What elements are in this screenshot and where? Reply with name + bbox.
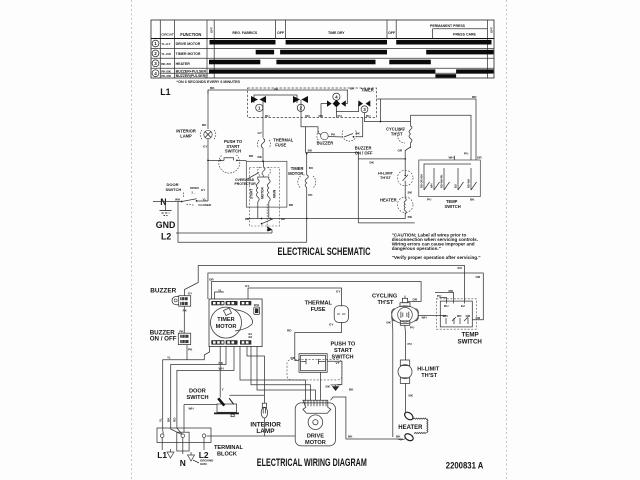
svg-text:BUZZER: BUZZER [150,288,176,295]
svg-text:FUNCTION: FUNCTION [180,32,201,37]
cycling thermostat (wiring) [392,298,419,325]
wire heater down [404,213,406,219]
svg-text:HI-LIMIT: HI-LIMIT [417,367,440,373]
temp switch internal contact 4 [454,168,464,190]
terminal block N sub-box [177,432,189,451]
wire L1 down [161,438,163,451]
wire cycling top to bus [404,296,406,299]
wire cycling bottom PU [404,325,407,360]
wire door switch left down to N [183,405,185,433]
svg-text:TEMP: TEMP [462,332,479,339]
svg-text:RD: RD [173,417,177,422]
svg-text:MAIN: MAIN [272,189,276,198]
svg-text:MOTOR: MOTOR [260,186,264,199]
svg-text:BK: BK [349,388,354,392]
wire lamp bus right to drive motor [264,435,295,437]
wire bus D (OR) to cycling thermostat [212,282,422,302]
row1 drive motor bar seg1 [210,40,276,45]
svg-text:LAMP: LAMP [180,134,192,139]
ground symbol 2 [188,452,195,461]
svg-text:1: 1 [258,106,261,111]
svg-text:BK: BK [387,321,392,325]
wire buzzer down to on/off [183,306,185,333]
motor solid box [246,161,287,207]
svg-text:SWITCH: SWITCH [445,204,461,209]
wire BK harness to N terminal [171,346,226,434]
drive motor connector [303,400,331,413]
svg-text:CYCLING: CYCLING [372,294,397,300]
overload protector [258,167,271,176]
svg-text:ON / OFF: ON / OFF [150,335,177,342]
svg-text:HEATER: HEATER [176,62,191,66]
svg-text:TIMER: TIMER [217,317,234,323]
svg-text:YL-GY: YL-GY [161,42,171,46]
svg-text:BK: BK [167,417,171,422]
svg-text:2200831 A: 2200831 A [446,461,484,471]
svg-text:PK: PK [331,133,336,137]
svg-text:OR: OR [209,278,214,282]
right outer wire rect [377,99,477,160]
svg-text:PK: PK [356,132,361,136]
svg-text:WH: WH [430,184,434,188]
wire contact2 down to buzzer bus [301,118,318,134]
header column line off2 right [395,20,397,39]
terminal circle L1 [160,434,164,438]
press care sub-divider [433,28,488,30]
svg-text:RD-WH-PK: RD-WH-PK [440,174,444,188]
svg-text:BK: BK [245,217,250,221]
interior lamp [200,130,216,139]
svg-text:THERMAL: THERMAL [305,301,333,307]
timer contact 2 triangles [293,96,308,103]
wire door switch return down [178,202,307,243]
wire contact3 right bus to cycling [364,118,410,122]
table column line circuit [159,20,161,78]
row4 middle line [160,72,487,74]
row1 drive motor bar seg2 [286,40,387,45]
wire feed from top bus to contact 4 [346,90,348,104]
row1 drive motor bar seg3 [396,40,491,45]
svg-text:WH: WH [443,314,449,318]
svg-text:OFF: OFF [490,27,494,33]
svg-text:DRIVE: DRIVE [307,434,324,440]
svg-text:L2: L2 [161,232,171,242]
svg-text:MOTOR: MOTOR [305,440,326,446]
timer contact 3 circle [361,106,368,113]
svg-text:RD-OR-WH: RD-OR-WH [420,174,424,188]
wire timer motor down [306,187,308,242]
heater enclosure bottom edge [358,222,414,224]
wire buzzer to on/off [328,136,343,139]
svg-text:BK: BK [281,217,286,221]
ground symbol (push switch) [331,385,341,392]
svg-text:OPEN: OPEN [190,186,200,190]
table column line off-narrow [213,20,215,78]
wire door switch to interior lamp [230,394,265,396]
svg-text:OFF: OFF [209,27,213,33]
wire timer to interior lamp [247,346,264,403]
svg-text:SWITCH: SWITCH [225,149,241,154]
svg-text:BK: BK [350,87,355,91]
svg-text:BK: BK [258,155,263,159]
svg-text:TERMINAL: TERMINAL [214,445,243,451]
wire L1 top bus [208,90,348,94]
svg-text:BK: BK [348,435,353,439]
wire hi-limit to heater [404,186,406,199]
door switch (wiring) [214,398,239,416]
row2 timer motor bar seg3 [426,50,493,55]
cycling thermostat (schematic) [398,115,412,171]
wire feeder to drive motor A [240,346,306,401]
svg-text:4: 4 [154,71,157,76]
wire cycling OR lead [408,300,410,303]
timer WH terminal [254,307,260,315]
timer bottom terminal strip 3 [240,340,251,344]
wire timer to door switch top [219,346,221,398]
svg-text:BK: BK [370,161,375,165]
svg-text:DOOR: DOOR [189,389,206,395]
svg-text:B3: B3 [249,335,253,339]
press care sub-divider vertical [432,29,434,39]
svg-text:2→: 2→ [192,191,196,195]
svg-text:RD-WH: RD-WH [467,179,471,188]
svg-text:TIMER: TIMER [361,88,374,93]
push to start switch box [299,354,327,373]
temp switch internal contact 5 [467,168,477,190]
svg-text:OR: OR [398,149,403,153]
right inner wire rect [411,115,472,160]
svg-text:PU: PU [408,342,413,346]
row3 heater bar seg2 [276,60,375,65]
heater coil (schematic) [397,197,413,214]
svg-text:PU: PU [464,152,469,156]
wire drive motor right to heater [331,397,404,439]
wire RD cycling to temp [435,293,454,304]
svg-text:START: START [250,189,254,199]
svg-text:BK: BK [408,191,413,195]
svg-text:BUZZER(PULSER)*: BUZZER(PULSER)* [176,74,209,78]
row line 2-3 [151,57,494,59]
svg-text:BU: BU [458,266,463,270]
timer contact 1 wire down [262,100,264,118]
circled 2 [152,50,159,57]
svg-text:DRIVE MOTOR: DRIVE MOTOR [176,42,201,46]
svg-text:PK: PK [188,348,193,352]
svg-text:TH'ST: TH'ST [380,176,391,180]
svg-text:BK: BK [396,435,401,439]
temp switch bus inside [424,164,471,168]
temp switch dashed box [436,299,476,329]
row line 3-4 [151,67,494,69]
wire N to door switch [153,201,182,203]
svg-text:BLOCK: BLOCK [217,452,237,458]
temp switch internal contact 2 [430,168,440,190]
buzzer pulser bypass wire [306,127,359,223]
row3 heater bar seg3 [389,60,431,65]
svg-text:BK: BK [202,123,207,127]
motor dashed enclosure [249,168,279,227]
temp switch internal contact 3 [440,168,450,190]
terminal circle N [181,434,185,438]
svg-text:RD: RD [319,114,324,118]
svg-text:PK: PK [183,309,188,313]
svg-text:FUSE: FUSE [275,143,286,148]
wire bus E (GY) to thermal fuse [248,288,342,306]
svg-text:BK: BK [210,86,215,90]
temp switch WH stub [454,156,456,160]
svg-text:* ON 6 SECONDS EVERY 6 MINUTES: * ON 6 SECONDS EVERY 6 MINUTES [176,80,240,84]
svg-text:PERMANENT PRESS: PERMANENT PRESS [430,24,466,28]
row4b pulser bar [435,74,456,77]
junction dot start winding [261,218,263,220]
wire feeder to drive motor B [251,346,311,401]
buzzer on/off switch [342,130,356,141]
svg-text:PROTECTOR: PROTECTOR [235,182,257,186]
svg-text:PU: PU [338,114,343,118]
temp switch contacts [446,317,468,324]
push to start switch (schematic) [207,155,246,173]
wire top bus C (OR) to temp switch right [208,273,483,320]
svg-text:OFF: OFF [388,31,396,35]
svg-text:1: 1 [154,41,157,46]
buzzer (schematic) [317,131,328,141]
svg-text:ELECTRICAL SCHEMATIC: ELECTRICAL SCHEMATIC [278,246,371,258]
wire main winding down [268,202,270,219]
wire N down [182,438,184,455]
wire motor return bus W1 [246,218,405,220]
door switch (schematic) [181,186,212,207]
svg-text:WH: WH [449,155,455,159]
wire thermal fuse down-left to push switch [295,322,342,360]
wire door switch to lamp leg [197,200,208,202]
svg-text:HI-LIMIT: HI-LIMIT [378,172,394,176]
wire PK drop from contact 4 diamond [335,107,337,117]
svg-text:OR: OR [477,156,482,160]
wire WH door switch [184,404,217,406]
svg-text:N: N [180,458,186,468]
svg-text:TH'ST: TH'ST [421,373,438,379]
timer contact 2 wire down [300,100,302,118]
wire cycling right WH to temp [418,315,446,317]
timer contact 1 circle [256,104,263,111]
wire YL short [215,292,225,299]
wire L2 down [203,438,205,451]
buzzer component [172,296,191,307]
svg-text:RD: RD [449,289,454,293]
svg-text:TH'ST: TH'ST [378,300,395,306]
thermal fuse (schematic) [257,139,270,149]
svg-text:SWITCH: SWITCH [166,187,182,192]
svg-text:RD: RD [289,203,294,207]
svg-text:CLOSED: CLOSED [198,203,212,207]
svg-text:OR: OR [305,114,310,118]
ground symbol 1 [167,449,174,458]
wire cycling left BK down to heater [391,319,394,438]
timer contact 3 wire down [364,113,366,118]
svg-text:WH: WH [189,407,195,411]
ground symbol [160,211,172,216]
junction dot main winding [270,218,272,220]
svg-text:BU: BU [309,166,314,170]
terminal circle L2 [202,434,206,438]
buzzer on/off component [178,333,190,344]
wire YL harness to L1 terminal [163,347,210,434]
wire PU to temp [440,298,447,304]
right page fold dashed line [506,0,508,480]
drive motor shaft circle [308,415,323,430]
timer top terminal strip 3 [240,301,251,305]
header column line off1 right [285,20,287,39]
wire push switch bottom to drive motor [320,372,322,400]
svg-text:2: 2 [154,51,157,56]
left vertical feed wire [380,99,382,122]
push to start dashed enclosure [287,360,342,380]
wire top bus B (BU) buzzer to temp switch E2 [185,266,465,304]
svg-text:OR: OR [476,275,481,279]
wire L2 into centrifugal switch [271,230,273,233]
interior lamp (wiring) [261,403,267,418]
svg-text:BK: BK [326,385,331,389]
svg-text:RD: RD [287,329,292,333]
wire link contact 4 to contact 3 [336,105,358,112]
svg-text:BU: BU [444,304,449,308]
timer top terminal strip 1 [211,301,224,305]
terminal block rect [157,428,211,443]
svg-text:YL-OR: YL-OR [161,52,171,56]
ground stem [165,202,167,211]
wire on/off up to contact3 [356,118,363,137]
svg-text:PK: PK [308,193,313,197]
row4a buzzer bar seg1 [209,69,435,73]
svg-text:PU: PU [427,198,432,202]
junction dot timer motor [306,218,308,220]
svg-text:BU: BU [454,184,458,188]
timer bottom terminal strip 1 [211,340,224,344]
svg-text:TH'ST: TH'ST [391,132,403,137]
timer dashed box [248,88,377,118]
row2 timer motor bar seg1 [256,50,274,55]
wire timer motor vertical [306,154,308,176]
hi-limit thermostat (schematic) [397,170,413,186]
svg-text:GRN: GRN [200,462,207,466]
svg-text:dangerous operation.": dangerous operation." [392,246,441,251]
temp switch solid box (wiring) [440,301,472,327]
svg-text:MOTOR,: MOTOR, [288,171,304,176]
row4a buzzer bar seg2 [456,69,493,73]
svg-text:LAMP: LAMP [256,428,275,435]
header column line off2 left [386,20,388,39]
svg-text:TIME DRY: TIME DRY [328,31,345,35]
wire contact1 to thermal fuse [262,118,264,138]
circled 4 [152,70,159,77]
svg-text:3: 3 [363,107,366,112]
svg-text:BU: BU [265,114,270,118]
drive motor body [295,403,335,446]
temp switch box (schematic) [419,160,481,197]
header column line off1 left [275,20,277,39]
svg-text:BUZZER: BUZZER [317,141,334,146]
table column line right-off [487,20,489,78]
svg-text:ON / OFF: ON / OFF [355,151,373,156]
svg-text:L1: L1 [160,87,170,97]
svg-text:E2: E2 [461,304,465,308]
centrifugal switch arm [261,219,273,232]
svg-text:REG. FABRICS: REG. FABRICS [232,31,258,35]
timer contact 4 bowtie [327,100,346,108]
svg-text:PK-BK: PK-BK [161,70,172,74]
svg-text:YL: YL [218,288,222,292]
svg-text:FUSE: FUSE [311,307,326,313]
header bottom line [151,38,494,40]
svg-text:"Verify proper operation after: "Verify proper operation after servicing… [392,255,481,260]
heater enclosure top edge [358,158,404,160]
circled 1 [152,40,159,47]
start winding coil [256,180,259,202]
svg-text:BK: BK [408,215,413,219]
svg-text:RD: RD [249,154,254,158]
svg-text:SWITCH: SWITCH [458,339,483,346]
wire hi-limit down to heater [405,383,407,412]
svg-text:TIMER MOTOR: TIMER MOTOR [176,52,201,56]
svg-text:PK: PK [179,329,184,333]
table column line chart-left [206,20,208,78]
heater (wiring) [398,411,428,442]
svg-text:YL: YL [159,418,163,422]
svg-text:HEATER: HEATER [398,425,423,431]
svg-text:WH: WH [422,315,428,319]
timer box (wiring) [209,299,262,347]
wire L1 vertical to lamp [207,90,209,129]
table column line function [174,20,176,78]
overload protector leader line [247,173,260,180]
row3 heater bar seg1 [209,60,260,65]
timer contact bus 1-2 [254,95,297,103]
row line 1-2 [151,47,494,49]
svg-text:BK: BK [219,361,224,365]
svg-text:WH: WH [175,198,181,202]
timer motor (schematic) [298,175,316,188]
svg-text:WH: WH [219,367,225,371]
timer top terminal strip 2 [226,301,238,305]
svg-text:HEATER: HEATER [380,198,397,203]
svg-text:PU: PU [410,326,415,330]
svg-text:L1: L1 [157,450,167,460]
svg-text:BUZZER+PULSER: BUZZER+PULSER [176,70,207,74]
wire WH harness to N terminal [177,346,234,434]
hi-limit thermostat (wiring) [398,360,412,383]
row2 timer motor bar seg2 [280,50,387,55]
wire on/off down [186,345,188,360]
main winding coil [267,180,270,202]
svg-text:BK: BK [470,198,475,202]
svg-text:OFF: OFF [277,31,285,35]
timer bottom terminal strip 2 [226,340,238,344]
wire push switch right to ground [327,361,342,384]
wire start winding down [257,202,259,219]
wire RD drop from contact 4 [321,104,327,118]
svg-text:START: START [334,348,353,354]
svg-text:BK-BU: BK-BU [161,62,172,66]
svg-text:RD: RD [472,95,477,99]
junction dot motor top [262,160,264,162]
wire lamp down [207,418,265,436]
svg-text:BK: BK [409,394,414,398]
svg-text:OR: OR [413,298,418,302]
svg-text:BU: BU [366,114,371,118]
svg-text:CIRCUIT: CIRCUIT [161,33,174,37]
svg-text:PUSH TO: PUSH TO [331,342,356,348]
svg-text:ELECTRICAL WIRING DIAGRAM: ELECTRICAL WIRING DIAGRAM [257,457,367,469]
